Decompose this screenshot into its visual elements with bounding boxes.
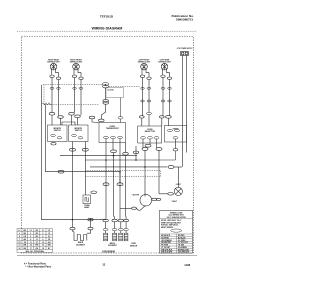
wire L1 from terminal block [181,56,183,167]
connector H2 [88,227,93,230]
connector H1 [70,227,75,230]
connector LF-1 [140,75,144,77]
wire B2c drop [135,146,137,160]
svg-text:L2: L2 [30,230,32,232]
wiring code legend box [160,210,193,253]
connector lead x81 [79,87,83,89]
zigzag link [42,103,53,105]
wire RF-2 drop [80,80,82,116]
wire LF-1 drop [142,78,144,116]
clock wire drop [105,88,107,99]
svg-text:18: 18 [42,248,44,250]
connector G4 [118,219,123,222]
svg-text:BW BLK-WHT: BW BLK-WHT [161,252,173,254]
svg-text:LAMP: LAMP [84,206,90,209]
connector row A5 [89,116,95,119]
wiring table text [19,230,52,253]
wire A3 drop [71,115,73,125]
wire bake lead 2 [87,230,91,233]
RF switch label [74,128,82,132]
svg-text:BW: BW [48,245,51,247]
broil element coil 4 [124,233,128,241]
svg-text:ELEMENT: ELEMENT [108,245,117,247]
oven light lead [177,167,179,187]
connector B1b [82,148,88,151]
wire A5 drop [92,119,99,123]
svg-text:# TO POWER SUPPLY: # TO POWER SUPPLY [177,48,193,50]
svg-text:SWITCH: SWITCH [54,130,62,132]
connector B2b [123,152,129,155]
oven door dashed top [85,170,161,172]
wire A8 drop [167,118,169,126]
terminal block TB [181,52,189,56]
connector C2 [168,166,174,169]
motor terminal 2 [156,198,160,200]
wire RF right lead [78,69,81,77]
connector console x163 [161,100,165,102]
surface unit RF element [73,63,80,70]
connector lead x58.5 [57,87,61,89]
timer label [173,129,180,131]
connector row A3 [69,112,75,115]
connector G5 [124,219,129,221]
connector timer [173,149,178,151]
surface unit RF label [70,59,83,63]
wire clock tap [120,98,122,117]
svg-text:5: 5 [30,236,31,238]
surface unit LF element [141,63,148,70]
wire clock to thermostat [101,104,105,119]
connector RR-1 [50,75,54,77]
connector J2 [112,228,117,230]
wire L2 box drop 1 [72,142,74,228]
wire motor left [120,207,132,209]
wire L2 box drop 2 [84,142,86,196]
junction dots [72,84,146,220]
RR switch terminal 2 [57,137,62,139]
connector lead x52 [50,87,54,89]
RF switch terminal 1 [72,134,77,136]
RR switch label [53,128,61,132]
selector terminal S2 [148,137,153,139]
svg-text:MENT WIRING: MENT WIRING [161,227,174,229]
connector J4 [124,229,128,231]
timer terminal M1 [168,129,173,131]
svg-text:L1: L1 [19,230,21,232]
bake element [74,233,87,241]
wire bus mid [85,159,175,161]
connector G1 [88,218,93,221]
connector row A7 [159,116,164,118]
connector A6b [147,112,152,114]
wire thermostat drop 3 [119,139,121,219]
connector row A4 [75,115,81,118]
svg-text:SENSOR: SENSOR [130,245,138,247]
oven door dashed bottom [85,176,161,178]
wire timer drop [175,139,177,149]
connector lead x169.5 [168,87,172,89]
timer terminal M3 [173,137,178,139]
wire light bus [90,166,167,168]
selector terminal S3 [154,137,159,139]
wire RF-1 drop [74,78,76,113]
selector switch box [138,126,162,143]
connector B1 [70,148,76,151]
svg-text:* = Non-Illustrated Parts: * = Non-Illustrated Parts [25,265,52,268]
connector J1 [103,228,108,230]
header rule [17,30,197,32]
svg-text:WIRING DIAGRAM: WIRING DIAGRAM [92,26,123,30]
svg-text:MDL. NO. TEF351DWA: MDL. NO. TEF351DWA [26,250,45,253]
motor circle [140,194,152,206]
oven thermostat label [106,126,120,130]
connector B4 [156,148,162,151]
svg-text:12: 12 [42,242,44,244]
wire A6b drop [148,115,150,126]
console harness connector P1 [103,83,109,88]
thermostat terminal T2 [111,136,116,138]
svg-text:1: 1 [19,233,20,235]
connector LF-2 [147,77,151,79]
oven door dashed right [160,171,162,177]
selector terminal S1 [141,137,146,139]
wire thermostat drop 2 [112,139,114,150]
connector RR-2 [56,77,60,79]
wire bridge L1-L2 [62,122,75,125]
wire A7 drop [161,118,163,126]
svg-text:10: 10 [19,242,21,244]
connector lead x163 [161,87,165,89]
svg-text:11: 11 [102,263,106,267]
svg-text:2: 2 [30,233,31,235]
connector E1 [168,193,174,196]
svg-text:* MOTOR: * MOTOR [132,194,140,196]
oven lamp box [83,195,91,204]
wire A1 drop [51,115,53,125]
wire LF left lead [141,69,143,75]
connector J3 [118,228,123,230]
console dashed boundary left [43,85,45,105]
wire RR left lead [51,69,53,75]
wire motor feed [144,150,146,196]
connector G3 [112,219,117,222]
wire RR right lead [56,69,59,77]
svg-text:8: 8 [30,239,31,241]
wire L1 box drop [51,143,56,145]
sensor label [130,243,138,247]
connector console x169.5 [168,100,172,102]
svg-text:SURFACE UNIT: SURFACE UNIT [138,61,151,64]
svg-text:* LIGHT: * LIGHT [171,201,178,203]
console dashed boundary right [109,86,141,88]
selector switch label [145,129,156,133]
connector B5 [145,144,151,147]
wire A4 drop [77,118,79,126]
connector A0 above thermostat [99,119,105,122]
wiring code legend note [161,220,182,229]
wiring code legend rows [161,234,190,254]
connector B2c [133,151,139,154]
svg-text:16: 16 [19,248,21,250]
oven lamp filament [85,198,89,202]
connector lamp [91,191,97,194]
wire selector drop 3 [156,139,158,148]
broil element coil 2 [113,233,117,241]
svg-text:7: 7 [19,239,20,241]
wire B4 drop [158,150,160,193]
connector RF-1 [72,75,76,77]
connector LR-1 [161,75,165,77]
connector row A8 [166,116,172,119]
console dashed boundary top [43,84,102,86]
clock box [106,88,124,98]
svg-text:SURFACE UNIT: SURFACE UNIT [70,61,83,64]
wiring code legend table [160,234,193,253]
timer terminal M2 [175,129,180,131]
wire RR-1 drop [51,78,53,113]
wiring table [17,229,53,253]
connector RF-2 [79,77,83,79]
connector row A1 [49,112,55,115]
wire A2 drop [60,118,62,125]
surface unit LF label [138,59,151,63]
connector LR-2 [167,77,171,79]
wire LR right lead [167,69,170,77]
oven thermostat box [99,123,126,143]
wire LR left lead [162,69,164,75]
surface unit RR label [47,58,60,63]
connector clock tap [118,117,123,119]
RF switch box [69,125,89,142]
svg-text:RW: RW [35,245,38,247]
svg-text:1198: 1198 [184,263,190,267]
broil element coil 3 [119,233,123,241]
RF switch terminal 2 [78,137,83,139]
timer box [164,126,186,143]
wire coil risers [106,222,127,233]
svg-text:CLOCK: CLOCK [107,90,114,92]
RR switch box [48,125,68,142]
wire LR-2 drop [169,80,171,116]
wire A6 drop [141,118,143,126]
chassis dashed border [22,37,194,254]
wire LF-2 drop [148,80,150,113]
connector P2 [103,100,109,105]
oven lamp label [84,205,90,209]
footer rule [17,254,197,256]
wiring code legend stamp [171,229,182,232]
console dashed boundary bottom [44,103,99,105]
svg-text:14: 14 [30,244,32,247]
wire LF right lead [146,69,149,77]
svg-text:GW GRN-WHT: GW GRN-WHT [178,252,190,254]
svg-text:GW: GW [23,248,26,250]
wire neutral run [42,85,107,220]
connector D1 [103,183,109,186]
wire lamp feed [45,172,120,183]
wire bus left [44,104,46,171]
svg-text:LIGHT: LIGHT [176,184,182,186]
wire timer drop 2 [175,151,177,160]
svg-text:SWITCH: SWITCH [75,130,83,132]
connector F1 [132,207,137,209]
connector lead x142.5 [141,87,145,89]
wire tap stub [120,119,122,123]
connector console x142.5 [141,100,145,102]
svg-text:3: 3 [42,233,43,235]
footer parts legend [24,262,52,268]
svg-text:ELEMENT: ELEMENT [76,244,85,246]
connector C1 [58,170,64,173]
svg-text:9: 9 [42,239,43,241]
svg-text:YL: YL [36,239,38,241]
wire selector drop 1 [142,139,144,148]
svg-text:17: 17 [30,248,32,250]
motor terminal [152,198,157,200]
svg-text:# = Functional Parts: # = Functional Parts [24,262,47,265]
broil element label [108,243,117,247]
svg-text:13: 13 [19,245,21,247]
svg-text:5995398721: 5995398721 [176,18,193,22]
thermostat terminal T1 [104,136,109,138]
wire door wavy [136,206,145,211]
wire RR-2 drop [58,80,60,116]
wire broil feed [114,153,115,220]
svg-text:6: 6 [42,236,43,238]
connector B3 [142,148,148,151]
connector row A2 [58,116,64,119]
wire light elbow [174,166,182,168]
svg-text:4: 4 [19,235,20,238]
wiring code legend heading [167,212,187,218]
wire T3 side drop [125,143,127,153]
wire sensor drop [125,155,128,219]
connector console x149 [147,100,151,102]
svg-text:15: 15 [42,245,44,247]
svg-text:TEF351D: TEF351D [100,15,114,19]
wire bake entry [73,230,75,233]
surface unit LR element [161,63,168,70]
thermostat terminal T3 [118,136,123,138]
bake element label [76,241,85,246]
wire RF left lead [73,69,75,75]
surface unit RR element [50,63,57,70]
svg-text:SELECTOR: SELECTOR [145,131,156,133]
connector lead x74.5 [73,87,77,89]
oven light circle [174,187,182,195]
connector B2 [111,150,117,153]
wire N from terminal block [186,56,188,153]
wire thermostat drop 1 [105,139,107,219]
wire bus mid2 [60,155,137,157]
wire selector drop 2 [149,139,151,144]
broil element coil 1 [104,233,108,241]
connector lead x149 [147,87,151,89]
connector row A6 [139,116,144,118]
svg-text:SURFACE UNIT: SURFACE UNIT [158,61,171,64]
connector D2 [117,183,123,186]
publication number label [171,14,194,21]
svg-text:240208806: 240208806 [102,250,116,254]
wire bake lead [90,221,92,227]
wire LR-1 drop [162,78,164,116]
svg-text:THERMOSTAT: THERMOSTAT [106,127,120,130]
svg-text:SURFACE UNIT: SURFACE UNIT [47,61,60,64]
connector G2 [103,219,108,222]
wire light link [159,193,168,195]
RR switch terminal 1 [51,134,56,136]
surface unit LR label [158,58,171,63]
svg-text:11: 11 [30,242,32,244]
